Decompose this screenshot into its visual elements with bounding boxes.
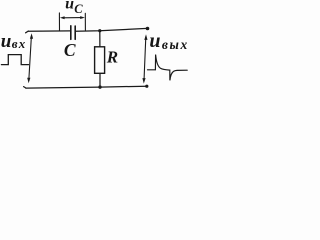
uC arrow right head <box>80 16 85 19</box>
resistor R1 top lead <box>99 31 101 47</box>
wire top rail left end serif <box>26 31 29 33</box>
resistor R1 bottom lead <box>99 74 101 88</box>
input arrow top head <box>30 33 33 39</box>
input arrow bottom head <box>27 78 30 84</box>
svg-text:R: R <box>106 48 118 67</box>
wire bottom rail left end serif <box>24 87 26 88</box>
wire top rail left segment <box>28 30 70 32</box>
svg-text:вых: вых <box>162 37 189 52</box>
resistor R1 body <box>95 47 105 74</box>
output arrow top head <box>144 34 147 40</box>
wire bottom rail <box>26 86 147 88</box>
input pulse waveform symbol <box>1 55 28 65</box>
junction dot top node <box>98 29 101 32</box>
junction dot bottom node <box>98 85 101 88</box>
wire top rail right segment <box>76 28 148 31</box>
uC measurement left tick <box>58 13 60 31</box>
svg-text:C: C <box>64 40 76 60</box>
output arrow bottom head <box>142 78 145 84</box>
output differentiated pulse waveform symbol <box>148 55 188 81</box>
output terminal dot top <box>146 27 150 31</box>
svg-text:C: C <box>74 2 83 16</box>
capacitor C1 right plate <box>74 26 76 39</box>
svg-text:u: u <box>65 0 74 12</box>
capacitor C1 left plate <box>70 26 72 40</box>
output terminal dot bottom <box>145 85 148 88</box>
uC arrow left head <box>60 16 65 19</box>
svg-text:вх: вх <box>12 36 27 51</box>
output voltage measure arrow shaft <box>144 37 146 81</box>
svg-text:u: u <box>149 30 160 52</box>
svg-text:u: u <box>1 31 12 52</box>
uC measurement right tick <box>84 13 86 30</box>
input voltage measure arrow shaft <box>29 36 32 81</box>
uC double arrow shaft <box>63 17 83 19</box>
